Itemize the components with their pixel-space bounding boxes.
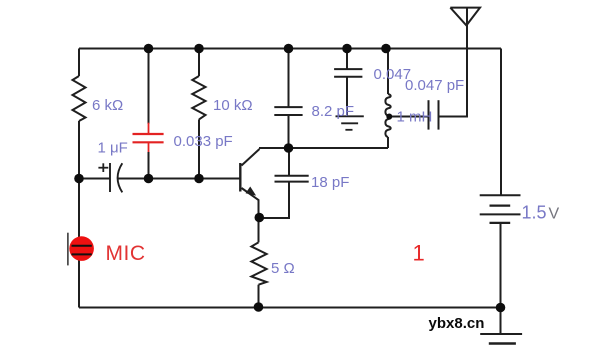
node collector (284, 143, 294, 153)
node top rail E (381, 44, 391, 54)
capacitor C1 1uF plate straight (109, 163, 111, 192)
resistor R1 6k zigzag (73, 76, 86, 121)
wire right rail bottom (500, 223, 502, 308)
inductor L1 coil (385, 94, 390, 137)
transistor Q1 base bar (239, 163, 241, 192)
wire 5ohm to bottom rail (258, 285, 260, 308)
svg-text:8.2 pF: 8.2 pF (312, 103, 355, 120)
wire bottom rail (79, 307, 501, 309)
wire cap to base junctions (119, 178, 240, 180)
ground G2 bar1 (480, 333, 522, 335)
transistor Q1 emitter diagonal (242, 188, 259, 218)
microphone MIC face bar (67, 233, 69, 266)
svg-text:ybx8.cn: ybx8.cn (429, 315, 485, 332)
node battery ground (496, 303, 506, 313)
wire 10k column top (198, 49, 200, 77)
capacitor C4 stem top (288, 148, 290, 176)
svg-text:MIC: MIC (106, 242, 146, 265)
inductor L1 stem top (387, 49, 389, 95)
node input left (74, 174, 84, 184)
node top rail C (284, 44, 294, 54)
resistor R3 5ohm zigzag (251, 242, 266, 284)
battery B1 plate3 long (480, 213, 521, 215)
svg-text:1 μF: 1 μF (98, 140, 128, 157)
svg-text:1.5 V: 1.5 V (522, 203, 560, 223)
svg-text:0.047 pF: 0.047 pF (405, 77, 464, 94)
svg-text:18 pF: 18 pF (311, 174, 349, 191)
svg-text:6 kΩ: 6 kΩ (92, 97, 123, 114)
ground G1 bar3 (345, 129, 352, 131)
capacitor C3 stem bottom (288, 115, 290, 148)
wire cap to antenna riser (439, 8, 468, 117)
node input mid (144, 174, 154, 184)
capacitor C3 8.2pF bottom plate (274, 114, 302, 116)
resistor R2 10k zigzag (192, 76, 205, 119)
capacitor C5 stem bottom (346, 77, 348, 116)
node base (194, 174, 204, 184)
inductor L1 stem bottom (387, 137, 389, 148)
capacitor C2 0.033 stem upper black (148, 49, 150, 125)
svg-text:1: 1 (413, 240, 425, 265)
node top rail A (144, 44, 154, 54)
capacitor C4 18pF top plate (275, 175, 309, 177)
node top rail D (342, 44, 352, 54)
wire emitter row (259, 182, 290, 218)
wire tap to antenna cap (389, 116, 428, 118)
capacitor C1 1uF plate curved (118, 163, 123, 192)
capacitor C5 0.047 bottom plate (334, 76, 362, 78)
svg-text:10 kΩ: 10 kΩ (213, 97, 253, 114)
wire collector to tank (259, 147, 388, 149)
transistor Q1 emitter arrow (247, 188, 255, 195)
wire left rail mid (78, 121, 80, 308)
transistor Q1 collector diagonal (242, 149, 260, 166)
ground G1 bar1 (336, 115, 364, 117)
wire input row (79, 178, 110, 180)
capacitor C4 18pF bottom plate (275, 181, 309, 183)
microphone MIC red disc (69, 236, 94, 261)
plus sign of C1 (98, 163, 108, 172)
ground G2 stem (500, 308, 502, 335)
battery B1 plate4 short (490, 222, 511, 224)
capacitor C2 0.033 red body (133, 123, 164, 152)
svg-text:1 mH: 1 mH (397, 109, 433, 126)
battery B1 plate2 short (490, 204, 511, 206)
capacitor C6 0.047pF right plate (438, 100, 440, 129)
wire left rail (78, 49, 80, 77)
svg-text:0.033 pF: 0.033 pF (174, 133, 233, 150)
wire below red cap (148, 152, 150, 179)
svg-text:5 Ω: 5 Ω (271, 260, 295, 277)
battery B1 plate1 long (480, 194, 521, 196)
capacitor C3 8.2pF top plate (274, 106, 302, 108)
capacitor C5 0.047 top plate (334, 68, 362, 70)
capacitor C3 8.2pF stem top (288, 49, 290, 108)
node emitter (254, 213, 264, 223)
node inductor tap (386, 114, 392, 120)
capacitor C6 0.047pF left plate (428, 100, 430, 129)
capacitor C5 0.047 stem top (346, 49, 348, 70)
wire right rail top (500, 49, 502, 196)
wire 10k column bottom (198, 119, 200, 178)
node bottom rail (254, 302, 264, 312)
wire top rail (79, 48, 501, 50)
wire emitter down (258, 218, 260, 242)
ground G1 bar2 (341, 122, 358, 124)
ground G2 bar2 (489, 342, 516, 344)
node top rail B (194, 44, 204, 54)
antenna triangle (450, 8, 480, 26)
